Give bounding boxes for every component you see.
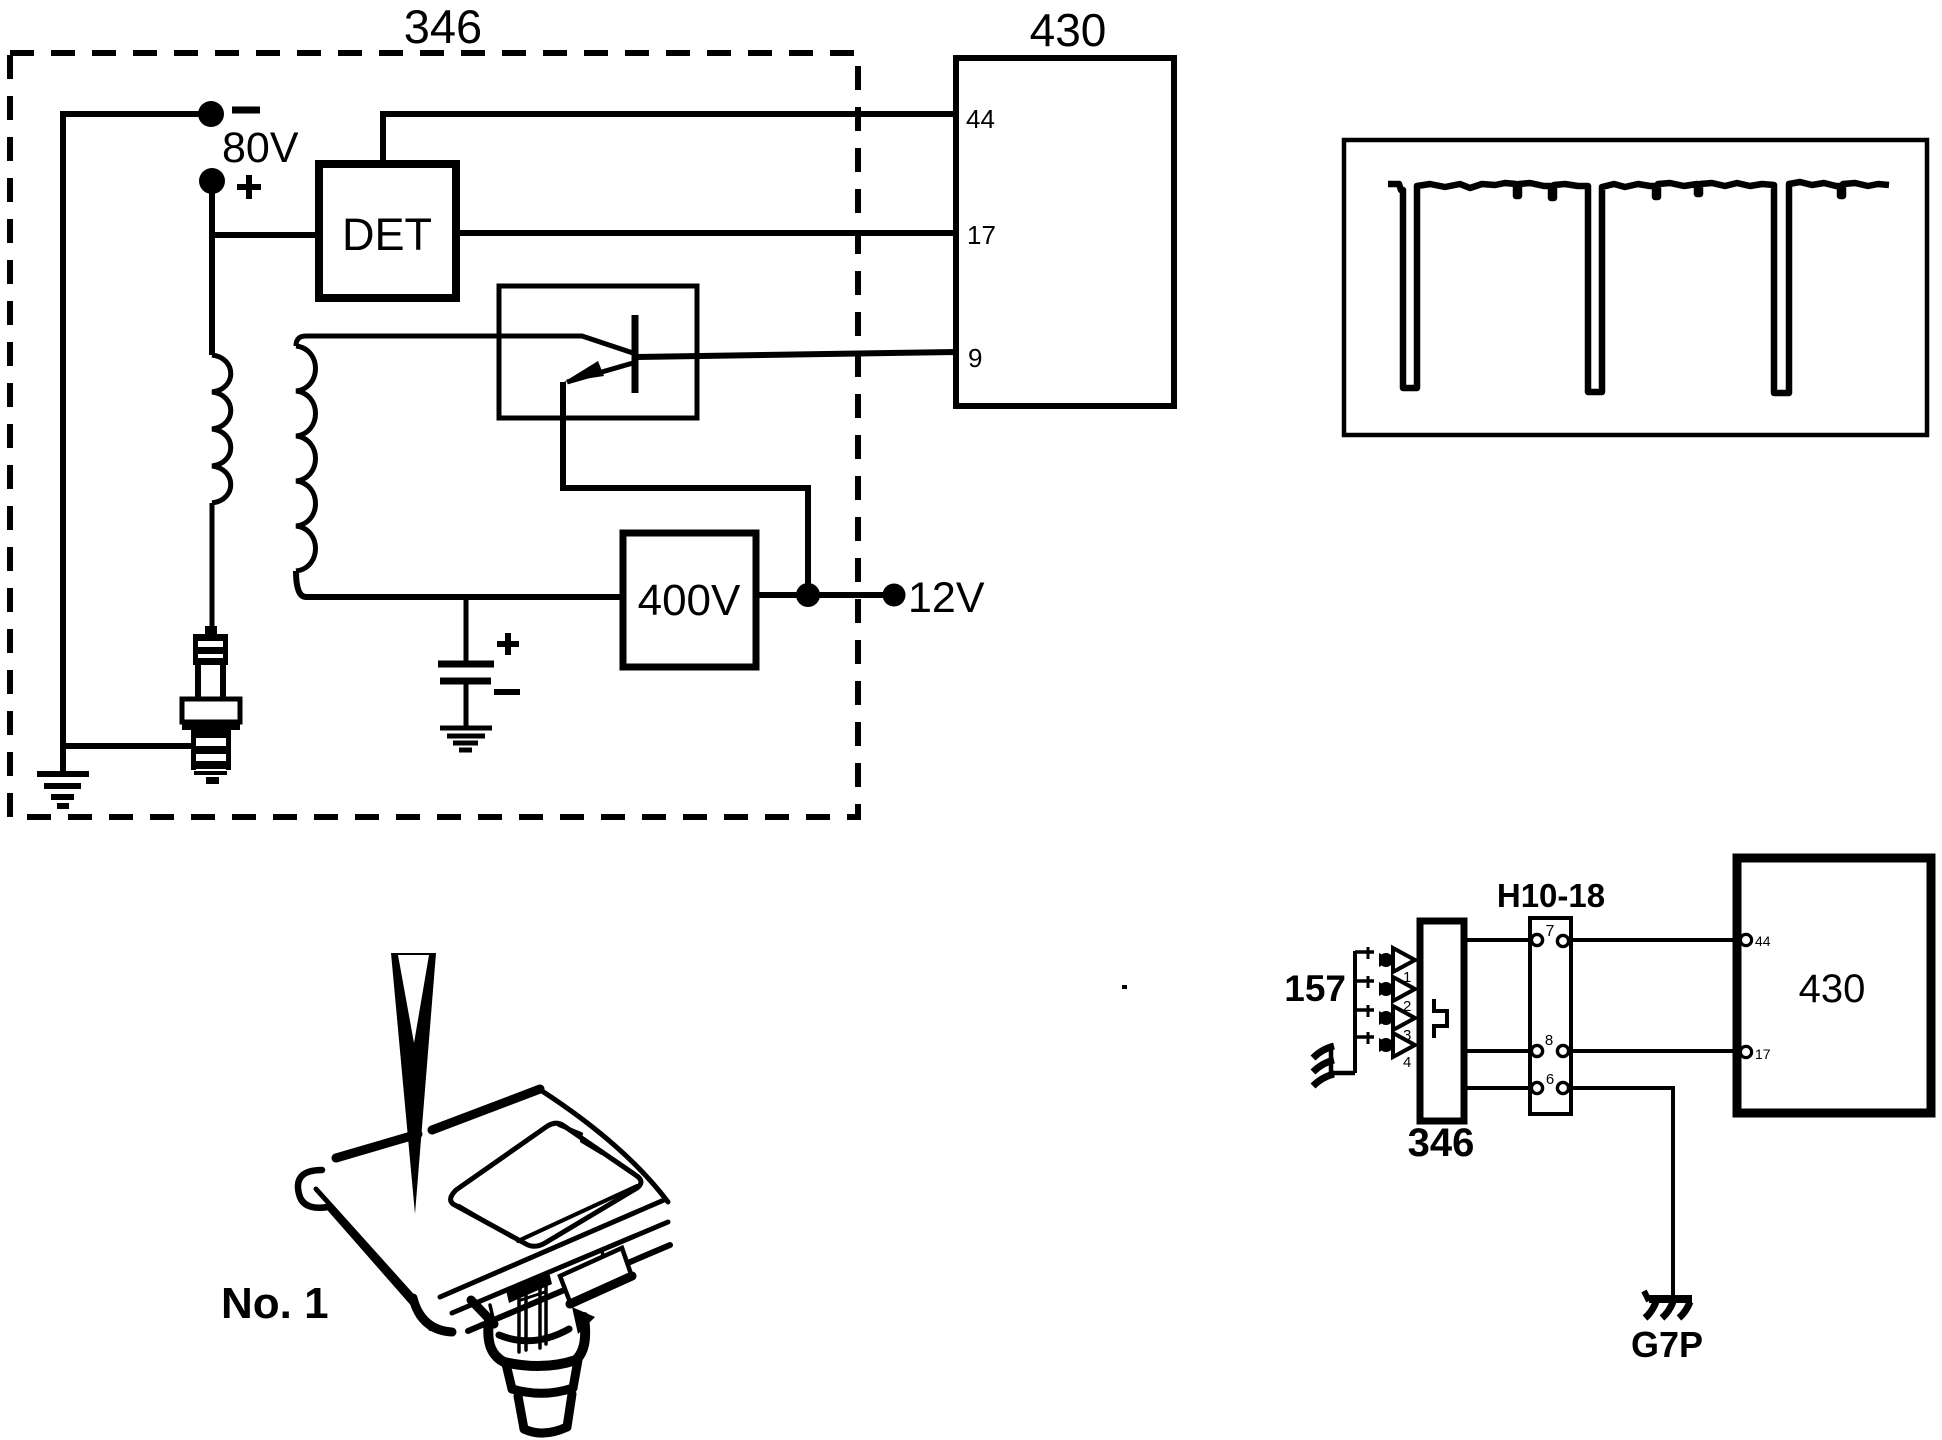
coil plate corner rim [413, 1298, 452, 1332]
svg-text:400V: 400V [638, 576, 741, 625]
svg-text:346: 346 [404, 0, 482, 53]
wire: left vertical [60, 111, 66, 746]
capacitor minus label [494, 689, 520, 695]
recess inner depth line [459, 1206, 512, 1237]
wire: secondary bottom to 400V [296, 571, 623, 597]
wires connector to 430 [1569, 940, 1740, 1051]
test probe needle [391, 953, 436, 1214]
coil plate far-right edge [542, 1091, 668, 1202]
wire: ground to spark plug shell [63, 743, 191, 749]
DET box U1 [319, 164, 456, 298]
boot cup [471, 1300, 494, 1324]
node junction dot [796, 583, 820, 607]
coil left corner tab [298, 1170, 328, 1208]
svg-text:44: 44 [966, 104, 995, 134]
minus sign [232, 107, 260, 114]
recess top marks [559, 1125, 602, 1153]
wire: coil to spark plug [210, 503, 215, 630]
svg-text:346: 346 [1408, 1121, 1475, 1165]
svg-text:17: 17 [1755, 1046, 1771, 1062]
waveform trace [1388, 182, 1889, 393]
svg-text:80V: 80V [222, 124, 299, 172]
transformer T1 secondary coil [296, 346, 316, 571]
wire: base lead to pin 9 [637, 352, 956, 357]
ground G7P symbol [1649, 1295, 1692, 1303]
node minus terminal dot [198, 101, 224, 127]
wire: plus dot down to primary coil [209, 181, 215, 355]
svg-text:7: 7 [1546, 923, 1555, 940]
coil plate near-left edge [316, 1189, 413, 1297]
coil plate near-right top edge [440, 1200, 664, 1297]
svg-text:12V: 12V [908, 574, 985, 622]
connector pins [1531, 934, 1568, 1093]
rim dark wedge at post [506, 1272, 552, 1303]
spark arrow 3 [1368, 1005, 1415, 1044]
coil top far edge stripe [336, 1134, 418, 1158]
post verticals [519, 1277, 546, 1352]
plus sign [237, 175, 261, 199]
transformer T1 primary coil [212, 355, 231, 503]
wire stubs [1355, 952, 1374, 1037]
wires 346 to connector [1464, 940, 1533, 1088]
transistor box [499, 286, 697, 418]
ground (earth) capacitor [440, 728, 492, 750]
svg-text:4: 4 [1403, 1054, 1411, 1071]
svg-text:DET: DET [342, 209, 432, 260]
svg-text:H10-18: H10-18 [1497, 877, 1605, 914]
bus wire for injectors [1353, 951, 1357, 1073]
ground (earth) left [60, 746, 66, 774]
stray mark [1122, 985, 1127, 989]
svg-text:430: 430 [1799, 967, 1866, 1011]
oscilloscope frame [1344, 140, 1927, 435]
coil plate rim bottom edge [468, 1245, 670, 1331]
coil plate rim middle edge [452, 1222, 668, 1313]
boot bottom [518, 1394, 572, 1429]
ion module box 346 (bottom) [1420, 921, 1464, 1121]
rim slot marks [430, 1250, 604, 1332]
pin 44 (bottom) [1740, 934, 1751, 945]
pin 17 (bottom) [1740, 1046, 1751, 1057]
svg-text:9: 9 [968, 343, 982, 373]
capacitor C1 [464, 597, 469, 662]
wire: minus terminal horizontal [63, 111, 200, 117]
spark arrow 2 [1368, 976, 1415, 1015]
connector H10-18 [1530, 918, 1571, 1114]
svg-text:8: 8 [1545, 1032, 1553, 1049]
svg-text:44: 44 [1755, 933, 1771, 949]
wire: emitter down and to 12V node [563, 382, 808, 595]
spark arrow 4 [1368, 1032, 1415, 1071]
wire: DET out to pin 17 [456, 230, 956, 236]
dark band below connector [570, 1276, 632, 1304]
dashed enclosure box 346 [10, 53, 858, 817]
wire: DET to pin 44 [383, 114, 956, 164]
svg-text:6: 6 [1546, 1071, 1554, 1088]
svg-text:157: 157 [1284, 968, 1346, 1009]
transistor Q1 collector wire from secondary [296, 336, 633, 353]
coil plate near-left rim edge [327, 1206, 420, 1312]
svg-text:430: 430 [1030, 4, 1107, 56]
wire: pin6 to ground G7P [1569, 1088, 1673, 1295]
wire: to DET input [212, 232, 319, 238]
node plus terminal dot [199, 168, 225, 194]
chassis ground 157 [1331, 1048, 1355, 1073]
connector body parallelogram [560, 1248, 631, 1302]
ECU box 430 (top) [956, 58, 1174, 406]
svg-text:17: 17 [967, 220, 996, 250]
400V converter box [623, 533, 756, 667]
svg-text:No. 1: No. 1 [221, 1279, 329, 1328]
transistor base bar [632, 315, 639, 393]
node 12V dot [883, 584, 906, 607]
wire: 400V to 12V [756, 592, 894, 598]
recess inner far wall line [518, 1186, 637, 1241]
capacitor plus label [497, 633, 519, 655]
spark arrow 1 [1368, 947, 1415, 986]
transistor emitter with arrow [567, 363, 633, 382]
ECU box 430 (bottom) [1737, 858, 1931, 1113]
spark plug P1 [182, 626, 240, 784]
step symbol inside 346 [1434, 999, 1447, 1038]
boot collar [506, 1360, 578, 1389]
svg-text:G7P: G7P [1631, 1324, 1703, 1365]
recess on coil top [451, 1123, 641, 1246]
